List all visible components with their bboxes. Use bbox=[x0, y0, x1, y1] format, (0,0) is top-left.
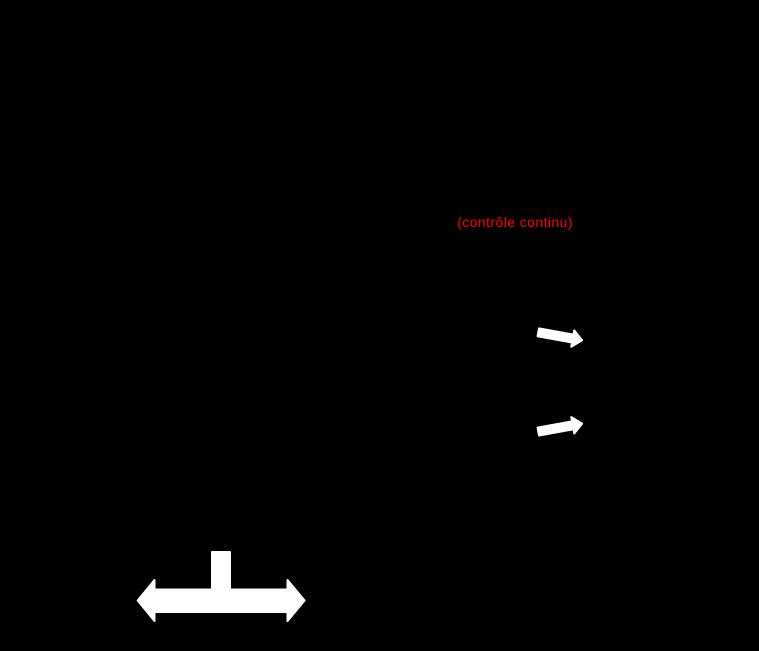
double-headed horizontal arrow with top stem bbox=[138, 552, 305, 621]
red label (contrôle continu) bbox=[457, 214, 573, 230]
small white arrow pointing right-up bbox=[538, 417, 583, 435]
small white arrow pointing right-down bbox=[538, 328, 583, 346]
